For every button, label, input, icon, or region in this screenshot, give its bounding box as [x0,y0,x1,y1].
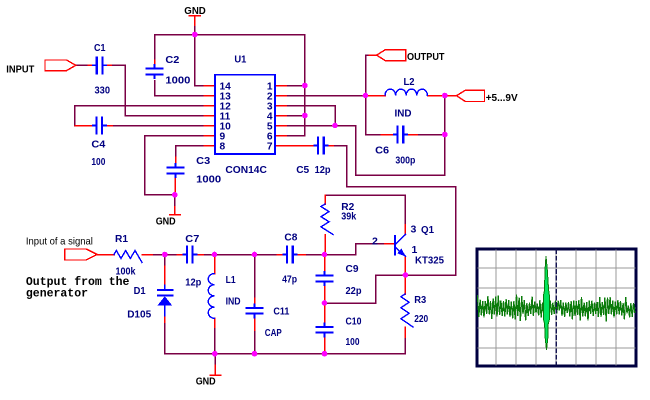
svg-text:U1: U1 [234,54,246,66]
node junction [252,252,258,258]
svg-text:Input of a signal: Input of a signal [26,235,93,247]
C4 leads [75,125,95,127]
emitter lead [404,256,406,275]
svg-text:D105: D105 [127,309,151,321]
wire pin 12 loop to C4 [75,106,204,126]
wire C11 bottom [254,330,256,354]
node junction [322,252,328,258]
svg-text:GND: GND [196,376,216,388]
wire C11 top [254,255,256,299]
svg-text:22p: 22p [346,285,362,297]
svg-text:D1: D1 [134,285,146,297]
svg-text:C9: C9 [346,263,359,275]
svg-text:330: 330 [95,85,111,97]
GND top stem red [194,16,196,25]
inductor L2 coil [385,89,427,95]
wire pin 1 [286,85,305,87]
GND c3 stem red [174,207,176,215]
ground c3 bar [170,214,180,216]
op-amp U1 body [215,75,275,154]
svg-text:C11: C11 [273,306,289,318]
wire GND c3 stem [174,195,176,207]
L1 top lead [214,255,216,274]
wire C5 to emitter net [333,146,456,276]
node junction [442,93,448,99]
wire D1 bottom to bus [165,322,405,354]
wire D1 top lead upper [164,255,166,267]
resistor R1 [114,251,142,263]
C11 leads [254,298,256,307]
capacitor C3 [167,163,185,178]
svg-text:1: 1 [412,244,418,256]
diode D1 [158,286,173,316]
node junction [212,351,218,357]
base lead [385,243,395,245]
wire pin 8 to C3 [176,146,205,158]
wire main bottom row [97,254,102,256]
capacitor C5 [313,137,328,155]
L2 leads [367,95,385,97]
node junction [363,93,369,99]
resistor R3 [401,294,413,327]
svg-text:IND: IND [226,296,241,308]
capacitor C6 [393,126,408,144]
svg-text:R3: R3 [414,294,426,306]
svg-text:C10: C10 [346,315,362,327]
IC right pin stubs [275,85,286,87]
capacitor C4 [92,117,107,135]
node junction [212,252,218,258]
capacitor C9 [316,271,334,286]
OUTPUT lead [369,54,377,56]
svg-text:C6: C6 [375,144,389,156]
wire pin 2 to L2 [286,95,367,97]
wire pin 5 to C6 bottom loop [286,96,445,176]
svg-text:C8: C8 [284,232,297,244]
C5 leads [286,145,317,147]
svg-text:L1: L1 [226,274,236,286]
node junction [403,272,409,278]
svg-text:220: 220 [414,313,428,325]
svg-text:R1: R1 [115,233,128,245]
scope noise trace [478,295,635,322]
svg-text:C7: C7 [185,233,199,245]
C1 leads [88,64,96,66]
C9 leads [324,255,326,276]
wire L1 bottom [214,327,216,354]
port generator arrow [65,249,98,260]
IC left pin stubs [204,85,215,87]
C10 leads [324,303,326,327]
scope spike pulse [543,256,549,350]
D1 leads [164,266,166,286]
wire C4 to pin 10 [112,125,204,127]
resistor R2 [321,204,333,234]
wire GND stem to pin 14 [195,25,204,86]
svg-text:C5: C5 [296,164,309,176]
C2 top lead [154,60,156,68]
svg-text:39k: 39k [341,210,356,222]
svg-text:2: 2 [372,236,378,248]
node junction [332,123,338,129]
capacitor C11 [246,303,264,318]
svg-text:KT325: KT325 [415,254,444,266]
wire C2 bottom to pin 13 [155,81,205,96]
wire pin 3 [286,106,335,126]
R2 leads [324,195,326,204]
scope trigger dashed line [555,250,557,365]
R1 leads [98,254,115,256]
wire GND mid stem [214,354,216,365]
capacitor C10 [316,322,334,337]
capacitor C7 [182,246,197,264]
svg-text:1000: 1000 [165,74,190,86]
wire GND top loop [155,35,305,136]
svg-text:100: 100 [91,156,105,168]
svg-text:generator: generator [26,287,88,300]
wire pin 4 [286,115,305,117]
svg-text:OUTPUT: OUTPUT [407,51,445,63]
svg-text:47p: 47p [282,273,297,285]
ground top bar [189,15,200,17]
svg-text:12p: 12p [315,164,331,176]
C8 leads [277,254,286,256]
node junction [252,351,258,357]
transistor Q1 [394,234,406,256]
capacitor C8 [282,246,297,264]
wire OUTPUT drop [366,55,370,95]
wire R3 bottom [404,337,406,354]
wire input to C1 [76,64,88,66]
svg-text:C2: C2 [165,54,179,66]
svg-text:GND: GND [184,5,206,17]
node junction [322,300,328,306]
GND mid stem red [214,365,216,375]
svg-text:1000: 1000 [196,173,221,185]
svg-text:C4: C4 [91,138,105,150]
wire C6 right lead joint [417,134,445,136]
wire C6 left vertical [366,96,382,135]
port INPUT arrow [45,60,76,71]
port +5V arrow [457,90,485,101]
R3 leads [404,275,406,294]
port OUTPUT arrow [377,50,406,61]
node junction [302,83,308,89]
svg-text:+5...9V: +5...9V [486,92,518,104]
capacitor C1 [92,56,107,74]
svg-text:12p: 12p [185,276,201,288]
svg-text:INPUT: INPUT [6,64,35,76]
node junction [322,351,328,357]
svg-text:300p: 300p [395,155,415,167]
+5V lead [445,95,457,97]
inductor L1 coil [208,274,214,319]
svg-text:8: 8 [220,142,226,153]
wire base network [325,244,385,255]
node junction [192,32,198,38]
svg-text:3: 3 [411,224,417,236]
oscilloscope screen [477,249,636,366]
svg-text:GND: GND [156,215,176,227]
svg-text:C1: C1 [94,42,106,54]
node junction [302,113,308,119]
svg-text:100k: 100k [116,266,136,278]
L1 bottom lead red [214,318,216,327]
svg-text:CON14C: CON14C [225,164,267,176]
wire pin 9 loop [145,136,204,195]
C6 leads [381,134,396,136]
wire R2 top to collector [325,195,405,225]
wire C9 to emitter [325,275,406,303]
svg-text:Q1: Q1 [421,224,434,236]
svg-text:7: 7 [267,142,273,153]
svg-text:C3: C3 [196,155,210,167]
svg-text:IND: IND [395,107,412,119]
ground mid bar [210,374,221,376]
node junction [162,252,168,258]
collector lead [404,225,406,235]
svg-text:CAP: CAP [265,327,282,339]
capacitor C2 [146,64,164,79]
wire C1 to pin 11 [111,65,204,115]
node junction [442,132,448,138]
svg-text:100: 100 [346,336,360,348]
C3 leads [175,157,177,167]
C7 leads [177,254,186,256]
svg-text:L2: L2 [404,76,415,88]
node junction [172,192,178,198]
